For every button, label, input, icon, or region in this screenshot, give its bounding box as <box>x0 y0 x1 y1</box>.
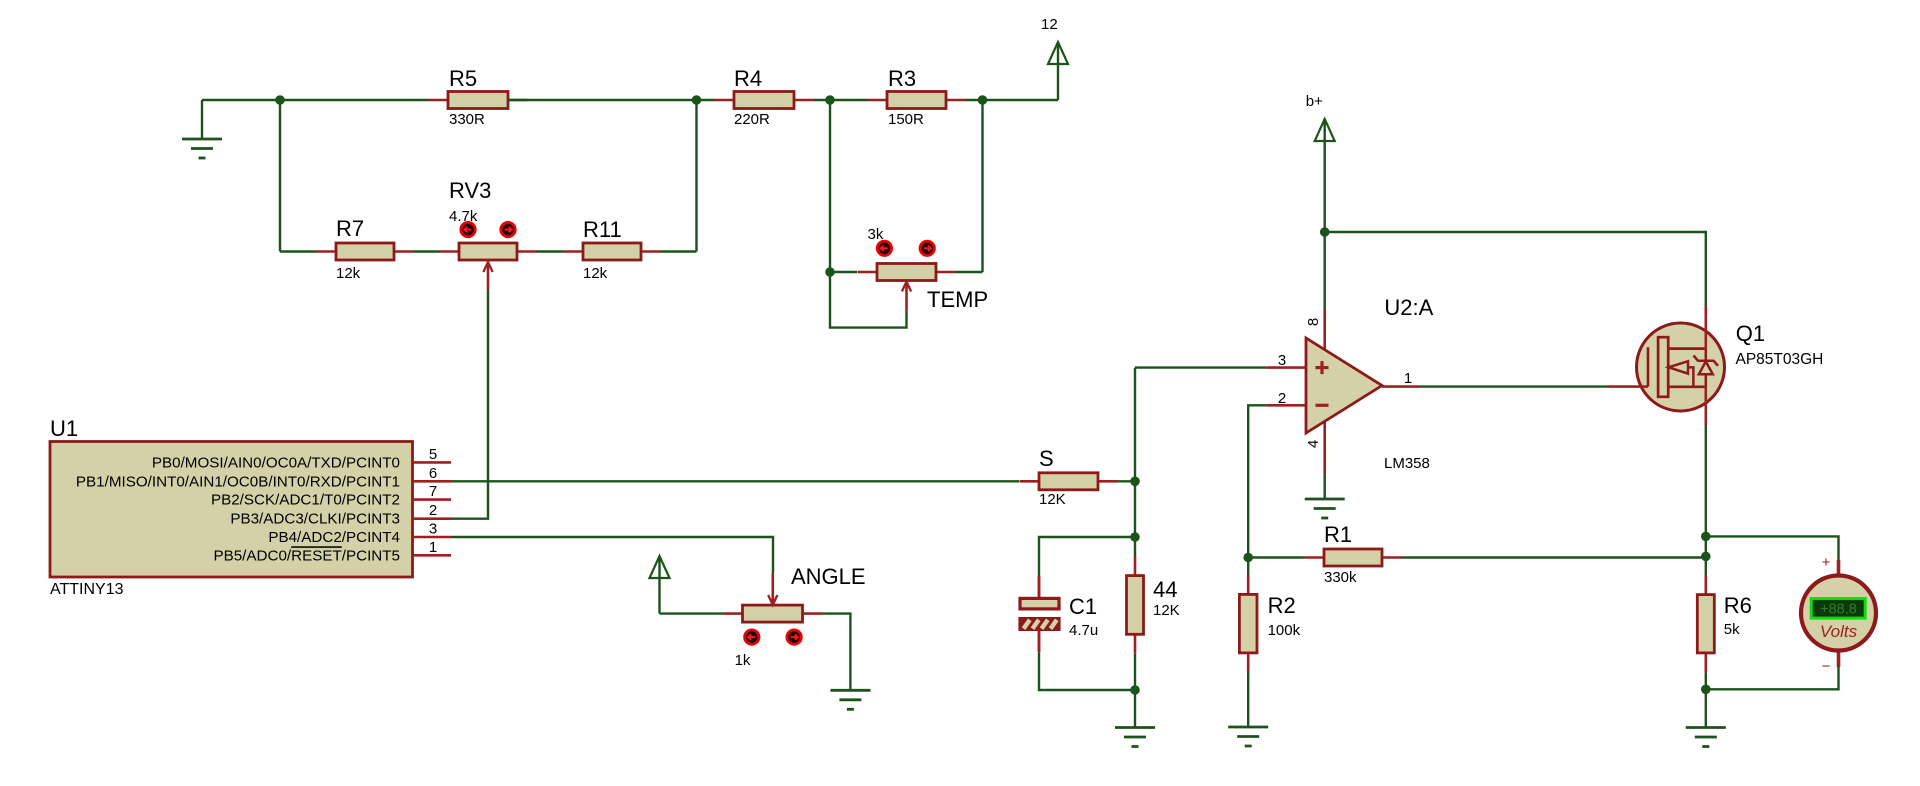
wire <box>1039 537 1135 576</box>
svg-text:PB2/SCK/ADC1/T0/PCINT2: PB2/SCK/ADC1/T0/PCINT2 <box>211 492 400 509</box>
transistor Q1 AP85T03GH <box>1607 306 1823 425</box>
wire <box>1705 672 1707 689</box>
wire <box>661 250 697 252</box>
svg-text:AP85T03GH: AP85T03GH <box>1736 351 1824 368</box>
wire <box>508 99 715 101</box>
svg-text:TEMP: TEMP <box>927 287 988 312</box>
svg-text:150R: 150R <box>888 111 924 128</box>
wire <box>1248 405 1266 557</box>
svg-text:R2: R2 <box>1268 593 1296 618</box>
svg-text:S: S <box>1039 446 1054 471</box>
svg-text:+88.8: +88.8 <box>1820 601 1857 617</box>
wire <box>414 250 440 252</box>
svg-text:7: 7 <box>429 483 437 500</box>
junction <box>1701 532 1711 542</box>
IC U1 ATTINY13 <box>50 416 451 598</box>
svg-text:PB4/ADC2/PCINT4: PB4/ADC2/PCINT4 <box>268 529 400 546</box>
svg-text:3k: 3k <box>868 226 884 243</box>
svg-text:R1: R1 <box>1324 522 1352 547</box>
svg-text:3: 3 <box>429 521 437 538</box>
ground <box>830 690 870 709</box>
wire <box>537 250 564 252</box>
svg-text:ATTINY13: ATTINY13 <box>50 581 124 598</box>
wire <box>1323 473 1325 499</box>
wire <box>280 250 317 252</box>
ground <box>1115 728 1155 747</box>
svg-text:−: − <box>1822 658 1831 675</box>
svg-text:R7: R7 <box>336 216 364 241</box>
wire <box>1135 366 1266 368</box>
wire <box>1325 232 1706 306</box>
resistor R6 5k <box>1697 575 1752 672</box>
svg-text:12: 12 <box>1041 16 1058 33</box>
svg-text:Q1: Q1 <box>1736 321 1765 346</box>
svg-text:PB0/MOSI/AIN0/OC0A/TXD/PCINT0: PB0/MOSI/AIN0/OC0A/TXD/PCINT0 <box>152 454 400 471</box>
wire <box>830 271 857 273</box>
wire <box>1706 536 1839 562</box>
resistor R5 <box>429 66 528 128</box>
wire <box>822 614 850 691</box>
wire <box>1134 690 1136 728</box>
svg-text:ANGLE: ANGLE <box>791 564 866 589</box>
svg-text:12K: 12K <box>1153 602 1180 619</box>
svg-text:330k: 330k <box>1324 569 1357 586</box>
power +12V <box>1041 16 1068 100</box>
op-amp U2:A LM358 <box>1266 295 1433 473</box>
svg-text:2: 2 <box>429 502 437 519</box>
voltmeter <box>1801 554 1876 675</box>
wire <box>451 290 488 519</box>
wire <box>981 100 983 272</box>
resistor R1 330k <box>1248 522 1401 586</box>
junction <box>275 95 285 105</box>
svg-text:3: 3 <box>1278 352 1286 369</box>
wire <box>1039 652 1135 690</box>
wire <box>1402 556 1706 558</box>
junction <box>1701 552 1711 562</box>
svg-text:R5: R5 <box>449 66 477 91</box>
wire <box>1134 368 1136 557</box>
junction <box>1130 685 1140 695</box>
resistor R2 100k <box>1239 558 1300 673</box>
svg-text:5k: 5k <box>1724 621 1740 638</box>
svg-text:44: 44 <box>1153 577 1177 602</box>
wire pin6 net <box>451 480 1019 482</box>
junction <box>692 95 702 105</box>
svg-text:4: 4 <box>1305 440 1322 448</box>
resistor R7 <box>317 216 414 282</box>
svg-text:PB5/ADC0/RESET/PCINT5: PB5/ADC0/RESET/PCINT5 <box>213 547 400 564</box>
svg-text:R4: R4 <box>734 66 762 91</box>
resistor R11 <box>564 217 661 282</box>
svg-text:2: 2 <box>1278 390 1286 407</box>
wire <box>830 272 907 328</box>
svg-text:330R: 330R <box>449 111 485 128</box>
svg-text:PB3/ADC3/CLKI/PCINT3: PB3/ADC3/CLKI/PCINT3 <box>230 511 400 528</box>
wire <box>1118 480 1136 482</box>
wire <box>1705 689 1707 727</box>
wire <box>1323 232 1325 309</box>
svg-text:12k: 12k <box>583 265 608 282</box>
resistor 44 12K <box>1127 556 1180 654</box>
svg-text:1: 1 <box>429 539 437 556</box>
resistor S 12K <box>1020 446 1118 508</box>
junction <box>825 267 835 277</box>
power b+ <box>1306 93 1335 232</box>
svg-text:1: 1 <box>1404 370 1412 387</box>
svg-text:220R: 220R <box>734 111 770 128</box>
wire <box>814 99 868 101</box>
svg-text:RV3: RV3 <box>449 178 491 203</box>
svg-text:5: 5 <box>429 446 437 463</box>
svg-text:1k: 1k <box>735 652 751 669</box>
svg-text:U2:A: U2:A <box>1384 295 1433 320</box>
potentiometer RV3 <box>440 178 537 290</box>
svg-text:6: 6 <box>429 465 437 482</box>
junction <box>1130 532 1140 542</box>
power arrow <box>650 556 670 614</box>
junction <box>1243 553 1253 563</box>
svg-text:12k: 12k <box>336 265 361 282</box>
junction <box>825 95 835 105</box>
svg-text:R11: R11 <box>583 217 622 242</box>
svg-text:Volts: Volts <box>1820 622 1858 641</box>
ground <box>1305 499 1345 518</box>
junction <box>978 95 988 105</box>
svg-text:8: 8 <box>1305 318 1322 326</box>
potentiometer TEMP 3k <box>858 226 989 312</box>
wire <box>1134 654 1136 690</box>
resistor R3 <box>868 66 966 128</box>
svg-text:PB1/MISO/INT0/AIN1/OC0B/INT0/R: PB1/MISO/INT0/AIN1/OC0B/INT0/RXD/PCINT1 <box>76 473 400 490</box>
junction <box>1320 227 1330 237</box>
svg-text:100k: 100k <box>1268 622 1301 639</box>
wire <box>956 271 983 273</box>
wire <box>660 612 724 614</box>
potentiometer ANGLE 1k <box>723 564 866 669</box>
svg-text:12K: 12K <box>1039 491 1066 508</box>
wire <box>695 100 697 252</box>
svg-text:b+: b+ <box>1306 93 1323 110</box>
resistor R4 <box>715 66 814 128</box>
ground <box>1228 727 1268 746</box>
svg-text:U1: U1 <box>50 416 78 441</box>
ground <box>1686 728 1726 747</box>
wire <box>1247 671 1249 727</box>
svg-text:R6: R6 <box>1724 593 1752 618</box>
wire pin3 net <box>451 537 773 573</box>
wire <box>1706 667 1839 689</box>
junction <box>1701 685 1711 695</box>
wire <box>829 100 831 272</box>
svg-text:4.7k: 4.7k <box>449 208 478 225</box>
svg-text:+: + <box>1822 554 1831 571</box>
wire <box>966 99 1059 101</box>
junction <box>1130 477 1140 487</box>
svg-text:4.7u: 4.7u <box>1069 622 1098 639</box>
capacitor C1 4.7u <box>1020 576 1098 652</box>
ground <box>182 100 222 158</box>
wire <box>279 100 281 252</box>
wire <box>202 99 429 101</box>
svg-text:C1: C1 <box>1069 594 1097 619</box>
svg-text:LM358: LM358 <box>1384 455 1430 472</box>
svg-text:R3: R3 <box>888 66 916 91</box>
wire <box>1420 385 1607 387</box>
wire <box>1705 425 1707 577</box>
